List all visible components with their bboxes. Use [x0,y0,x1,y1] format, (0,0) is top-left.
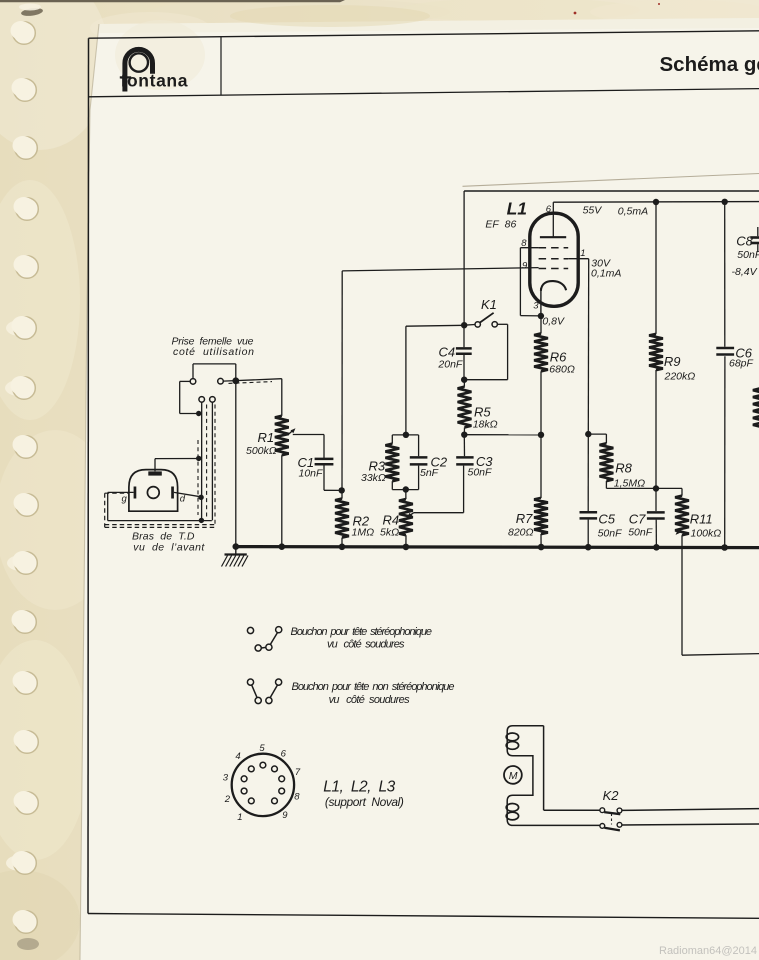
resistor R3 [391,435,393,444]
node R5/C3 [461,432,467,438]
bus node [721,544,728,551]
wire R4 wiper to C3 [414,512,464,514]
wire d contact [174,492,201,496]
wire socket to ground rail [192,364,194,379]
wire node R5 to R6R7 [464,434,541,436]
svg-text:0,8V: 0,8V [542,316,565,328]
svg-text:5: 5 [259,743,265,754]
capacitor C4 [463,325,465,347]
svg-text:5kΩ: 5kΩ [380,527,399,539]
wire C1 to grid line [323,465,325,491]
svg-text:C4: C4 [439,345,456,360]
svg-text:220kΩ: 220kΩ [664,371,696,383]
binder holes [13,22,36,45]
logo box divider [220,37,222,95]
svg-text:K2: K2 [603,788,620,803]
frame top line [89,31,759,38]
wire K1 to C4 bottom [497,323,507,325]
svg-text:1,5MΩ: 1,5MΩ [614,478,645,490]
bus node [585,544,592,551]
capacitor C3 [463,435,465,457]
svg-text:18kΩ: 18kΩ [473,419,498,431]
svg-text:8: 8 [294,791,300,802]
wire anode to B+ (pin 6) [552,202,554,237]
switch K1 [464,324,475,327]
cathode node [538,313,544,319]
wire K2 to mains right [622,809,759,811]
svg-text:vu côté soudures: vu côté soudures [329,694,411,706]
red specks [574,12,577,15]
resistor R11 (potentiometer) [681,488,683,495]
svg-text:68pF: 68pF [729,358,754,370]
node B+ C6 [722,199,728,205]
page left edge line [80,24,99,960]
wire g contact [108,491,134,493]
cartridge right contact [171,487,174,499]
solder blob 2 [196,456,201,461]
svg-text:coté utilisation: coté utilisation [173,346,254,358]
tube grid g1 dashes [539,268,569,270]
noval socket circle [232,754,294,816]
svg-text:50nF: 50nF [598,528,623,540]
bottom-left smudge [17,938,39,950]
resistor R5 [463,380,465,387]
svg-text:Schéma géné: Schéma géné [660,53,759,76]
svg-text:C7: C7 [629,512,646,527]
svg-text:R8: R8 [615,461,632,476]
svg-text:Radioman64@2014: Radioman64@2014 [659,945,757,957]
svg-text:7: 7 [295,767,301,778]
svg-text:55V: 55V [583,205,603,217]
connector sockets [190,379,196,385]
svg-text:(support Noval): (support Noval) [325,795,404,809]
R11 wiper arrow [676,530,681,535]
svg-text:3: 3 [223,772,229,783]
frame left line [87,38,90,913]
capacitor C6 [724,202,726,347]
svg-text:K1: K1 [481,297,497,312]
svg-text:100kΩ: 100kΩ [691,528,722,540]
tube anode plate [540,236,566,238]
dark top edge of scan [0,0,345,2]
node R3C2 bottom [403,486,409,492]
cartridge circle [147,487,159,499]
node R6/R7 [538,432,544,438]
switch K2 top pole [600,808,605,813]
tube grid g3 dashes [539,247,569,249]
wire B+ top rail [553,201,759,204]
capacitor C7 [655,489,657,512]
frame bottom line [88,914,759,919]
K2 mechanical link dashes [611,814,613,825]
capacitor C5 [587,434,589,511]
tube grid g2 dashes [539,258,569,260]
node R3C2 top [403,432,409,438]
node shield/ground [232,377,239,384]
wire R1 wiper to C1 [293,434,324,436]
svg-text:-8,4V: -8,4V [732,266,758,278]
svg-text:1: 1 [580,248,585,259]
svg-text:500kΩ: 500kΩ [246,445,277,457]
wire riser R3C2 to K1 [405,326,407,435]
fontana logo circle [130,53,148,71]
svg-text:fontana: fontana [121,71,188,91]
tube L1 envelope [530,213,578,306]
svg-text:1: 1 [237,812,242,823]
motor windings wire [507,726,600,826]
resistor R6 [540,316,542,334]
svg-text:R9: R9 [664,354,681,369]
node C4/R5 [461,377,467,383]
stain near top [230,5,430,27]
wire socket left branch [180,380,191,382]
bouchon stereo symbol [247,627,253,633]
svg-text:C8: C8 [736,234,753,249]
solder blob 4 [199,518,204,523]
svg-text:6: 6 [546,204,552,215]
wire box top [464,190,759,192]
wire R11 to output line [681,535,683,655]
solder blob 1 [196,411,201,416]
ground symbol [235,547,237,554]
wire socket to R1 [223,379,281,381]
svg-text:1MΩ: 1MΩ [352,527,375,539]
switch K2 bottom pole [600,824,605,829]
node R9/R8/R11 [653,485,659,491]
curled tear mark top-left [21,7,44,17]
wire box left vertical [463,191,465,325]
svg-text:M: M [509,770,518,782]
svg-text:R5: R5 [474,405,491,420]
svg-text:L1: L1 [507,199,527,219]
svg-text:9: 9 [282,810,288,821]
resistor R4 (potentiometer) [405,490,407,500]
cable left conductor [201,402,203,520]
noval pins [260,762,266,768]
svg-text:5nF: 5nF [420,467,439,479]
resistor R10 (cut at edge) [753,389,759,431]
R4 wiper arrow [410,513,413,516]
ground bus [234,547,759,548]
bus node [339,544,346,551]
svg-text:vu de l’avant: vu de l’avant [133,542,205,554]
svg-text:R6: R6 [550,350,567,365]
svg-text:20nF: 20nF [437,359,463,371]
svg-text:4: 4 [235,751,240,762]
svg-text:2: 2 [224,794,231,805]
svg-text:680Ω: 680Ω [549,364,575,376]
motor coil loops [506,733,518,741]
shield enclosure dashes [104,493,106,527]
svg-text:EF 86: EF 86 [485,219,516,231]
cathode lead wire [540,288,542,316]
fontana f crossbar [120,76,131,78]
resistor R8 [588,433,606,435]
svg-text:10nF: 10nF [299,468,324,480]
svg-text:50nF: 50nF [628,527,653,539]
wire motor to K2 [543,726,545,811]
bus node [538,544,545,551]
bouchon non-stereo symbol [247,679,253,685]
node K1 left [461,322,467,328]
resistor R2 [335,499,349,538]
wire R8 to R11 [606,487,682,489]
svg-text:820Ω: 820Ω [508,526,534,538]
bus node [403,544,410,551]
svg-text:d: d [180,494,186,505]
bus node [653,544,660,551]
svg-text:9: 9 [522,260,528,271]
wire R3C2 top bar [392,434,418,436]
svg-text:Bouchon pour tête stéréopho: Bouchon pour tête stéréophonique [291,626,433,638]
svg-text:33kΩ: 33kΩ [361,472,386,484]
cartridge body [129,470,178,512]
svg-text:50nF: 50nF [468,467,493,479]
wire R3C2 bottom bar [392,489,418,491]
cartridge top contact bar [148,471,162,475]
pin 1 wire (screen grid) [568,258,589,260]
capacitor C8 (cut at edge) [757,227,759,236]
node C1/R2 [339,487,345,493]
svg-text:R11: R11 [690,512,713,527]
faint upper wire [463,174,759,187]
cable right conductor [211,402,213,520]
cable shield dashes [206,405,208,519]
tube cathode [541,281,566,291]
svg-text:L1, L2, L3: L1, L2, L3 [323,779,395,796]
svg-text:vu côté soudures: vu côté soudures [327,639,405,651]
bus node [279,543,286,550]
resistor R7 [540,435,542,498]
svg-text:R1: R1 [258,430,275,445]
svg-text:R7: R7 [516,511,533,526]
grid wire to pin 9 [342,268,538,271]
solder blob 3 [198,495,203,500]
node g2/R8 [585,431,591,437]
bus node [233,543,240,550]
svg-text:C5: C5 [598,512,615,527]
shield dashes under wire [229,382,273,384]
svg-text:6: 6 [281,749,287,760]
R1 wiper arrow [288,431,293,435]
pin 8 wire [520,247,538,249]
svg-text:g: g [122,494,128,505]
frame header line [89,89,759,97]
node B+ R9 [653,199,659,205]
svg-text:0,5mA: 0,5mA [618,206,648,218]
svg-text:Bouchon pour tête non stér: Bouchon pour tête non stéréophonique [292,681,455,693]
fontana logo arch [125,49,153,91]
wire grid down [341,271,343,499]
potentiometer R1 [281,379,283,416]
svg-text:50nF: 50nF [737,249,759,261]
svg-text:R4: R4 [383,513,400,528]
motor M circle [504,766,522,784]
capacitor C2 [418,435,420,456]
svg-text:0,1mA: 0,1mA [591,268,621,280]
capacitor C1 [315,458,334,461]
resistor R9 [655,202,657,334]
svg-text:3: 3 [533,301,539,312]
wire cartridge top to cable [154,459,156,472]
cartridge left contact [134,487,137,499]
